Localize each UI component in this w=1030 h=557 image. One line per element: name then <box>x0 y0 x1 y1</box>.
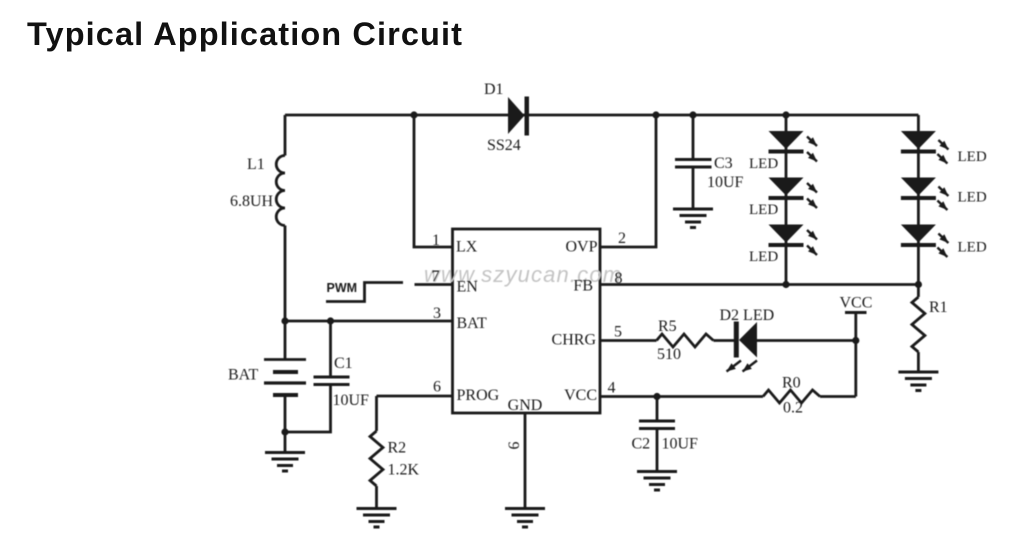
LED D2 indicator <box>734 322 757 358</box>
diode D1 <box>508 97 529 136</box>
svg-text:3: 3 <box>433 305 441 322</box>
wire C3 stem <box>692 115 695 158</box>
svg-text:LX: LX <box>456 239 478 256</box>
svg-text:C3: C3 <box>714 155 733 172</box>
wire top rail <box>285 114 918 117</box>
svg-text:4: 4 <box>608 380 616 397</box>
junction VCC node <box>852 337 859 344</box>
svg-text:D1: D1 <box>484 81 504 98</box>
svg-text:5: 5 <box>614 324 622 341</box>
wire VCC riser <box>854 313 857 397</box>
LED D3 string1 top <box>769 131 804 154</box>
wire OVP pin 2 <box>600 115 656 247</box>
wire L1 top segment <box>284 115 287 156</box>
wire D2 to VCC node <box>757 339 856 342</box>
junction battery-C1 ground <box>281 428 288 435</box>
junction VCC pin-C2 <box>653 393 660 400</box>
ground C2 <box>637 472 677 491</box>
wire R2 to ground <box>375 486 378 507</box>
wire R2 stem <box>375 396 378 431</box>
PWM step waveform <box>326 283 403 302</box>
svg-text:GND: GND <box>508 397 543 414</box>
wire LED string 1 <box>785 115 788 285</box>
svg-text:BAT: BAT <box>228 367 258 384</box>
wire LED string 2 <box>917 115 920 285</box>
junction BAT-C1 <box>327 317 334 324</box>
svg-text:PROG: PROG <box>457 387 500 404</box>
LED D7 string2 middle <box>901 178 936 201</box>
svg-text:LED: LED <box>958 149 987 165</box>
svg-text:C2: C2 <box>632 436 651 453</box>
svg-text:2: 2 <box>618 230 626 247</box>
ground battery <box>265 453 305 472</box>
wire C1 bottom return <box>285 385 331 433</box>
junction rail-C3 <box>689 111 696 118</box>
wire FB pin 8 rail <box>600 283 918 286</box>
capacitor C2 <box>639 421 675 429</box>
svg-text:SS24: SS24 <box>487 137 521 154</box>
svg-text:R0: R0 <box>782 375 801 392</box>
capacitor C1 <box>314 377 350 385</box>
svg-text:D2 LED: D2 LED <box>720 307 775 324</box>
svg-text:8: 8 <box>615 270 623 287</box>
ground C3 <box>673 209 713 228</box>
junction rail-OVP <box>652 111 659 118</box>
svg-text:VCC: VCC <box>840 295 873 312</box>
wire battery stem <box>284 321 287 359</box>
svg-text:BAT: BAT <box>457 315 487 332</box>
wire C2 stem <box>656 397 659 420</box>
junction FB-R1 <box>915 281 922 288</box>
wire R1 to ground <box>917 352 920 371</box>
wire PROG pin 6 <box>377 395 453 398</box>
ground R2 <box>357 509 397 528</box>
svg-text:R2: R2 <box>388 440 407 457</box>
junction FB-LED string1 <box>782 281 789 288</box>
svg-text:EN: EN <box>457 279 479 296</box>
svg-text:10UF: 10UF <box>333 392 370 409</box>
wire battery bottom <box>284 397 287 451</box>
svg-text:9: 9 <box>505 442 522 450</box>
wire BAT pin 3 <box>285 320 453 323</box>
resistor R0 <box>763 390 820 403</box>
ground IC GND <box>505 509 545 528</box>
svg-text:1.2K: 1.2K <box>388 462 420 479</box>
svg-text:VCC: VCC <box>564 387 597 404</box>
svg-text:CHRG: CHRG <box>552 332 597 349</box>
wire R0 to VCC node <box>820 395 856 398</box>
wire LX riser <box>414 115 453 247</box>
svg-text:PWM: PWM <box>327 281 358 295</box>
svg-text:6.8UH: 6.8UH <box>230 193 274 210</box>
wire EN stub <box>415 283 453 286</box>
wire R1 stem <box>917 285 920 298</box>
svg-text:R1: R1 <box>929 299 948 316</box>
junction rail-LX <box>410 111 417 118</box>
svg-text:OVP: OVP <box>565 239 597 256</box>
wire R5 to D2 <box>714 339 735 342</box>
LED D6 string2 top <box>901 131 936 154</box>
svg-text:LED: LED <box>958 190 987 206</box>
svg-text:LED: LED <box>958 240 987 256</box>
wire C1 stem <box>329 321 332 376</box>
LED D5 string1 bottom <box>769 225 804 248</box>
wire GND pin 9 <box>524 413 527 507</box>
svg-text:C1: C1 <box>334 355 353 372</box>
wire L1 to battery <box>284 226 287 322</box>
svg-text:LED: LED <box>749 156 778 172</box>
wire C3 to ground <box>692 167 695 208</box>
resistor R5 <box>657 334 714 347</box>
op-amp U1 IC body <box>453 229 601 413</box>
svg-text:510: 510 <box>657 346 681 363</box>
wire CHRG pin 5 <box>600 339 657 342</box>
inductor L1 <box>276 156 285 226</box>
resistor R1 <box>912 297 925 352</box>
svg-text:LED: LED <box>749 202 778 218</box>
resistor R2 <box>370 431 383 486</box>
junction BAT-battery <box>281 317 288 324</box>
svg-text:6: 6 <box>433 379 441 396</box>
svg-text:7: 7 <box>432 268 440 285</box>
svg-text:1: 1 <box>432 232 440 249</box>
battery BAT <box>264 360 306 396</box>
capacitor C3 <box>675 160 712 168</box>
junction rail-LED string1 <box>782 111 789 118</box>
wire VCC pin 4 <box>600 395 763 398</box>
wire C2 to ground <box>656 429 659 471</box>
ground R1 <box>898 372 938 391</box>
svg-text:FB: FB <box>573 278 593 295</box>
LED D4 string1 middle <box>769 178 804 201</box>
VCC power symbol <box>845 311 867 314</box>
svg-text:LED: LED <box>749 249 778 265</box>
LED D8 string2 bottom <box>901 225 936 248</box>
svg-text:L1: L1 <box>247 156 265 173</box>
svg-text:R5: R5 <box>658 318 677 335</box>
title <box>27 16 463 53</box>
svg-text:10UF: 10UF <box>707 174 744 191</box>
svg-text:10UF: 10UF <box>662 436 699 453</box>
svg-text:0.2: 0.2 <box>783 400 803 417</box>
